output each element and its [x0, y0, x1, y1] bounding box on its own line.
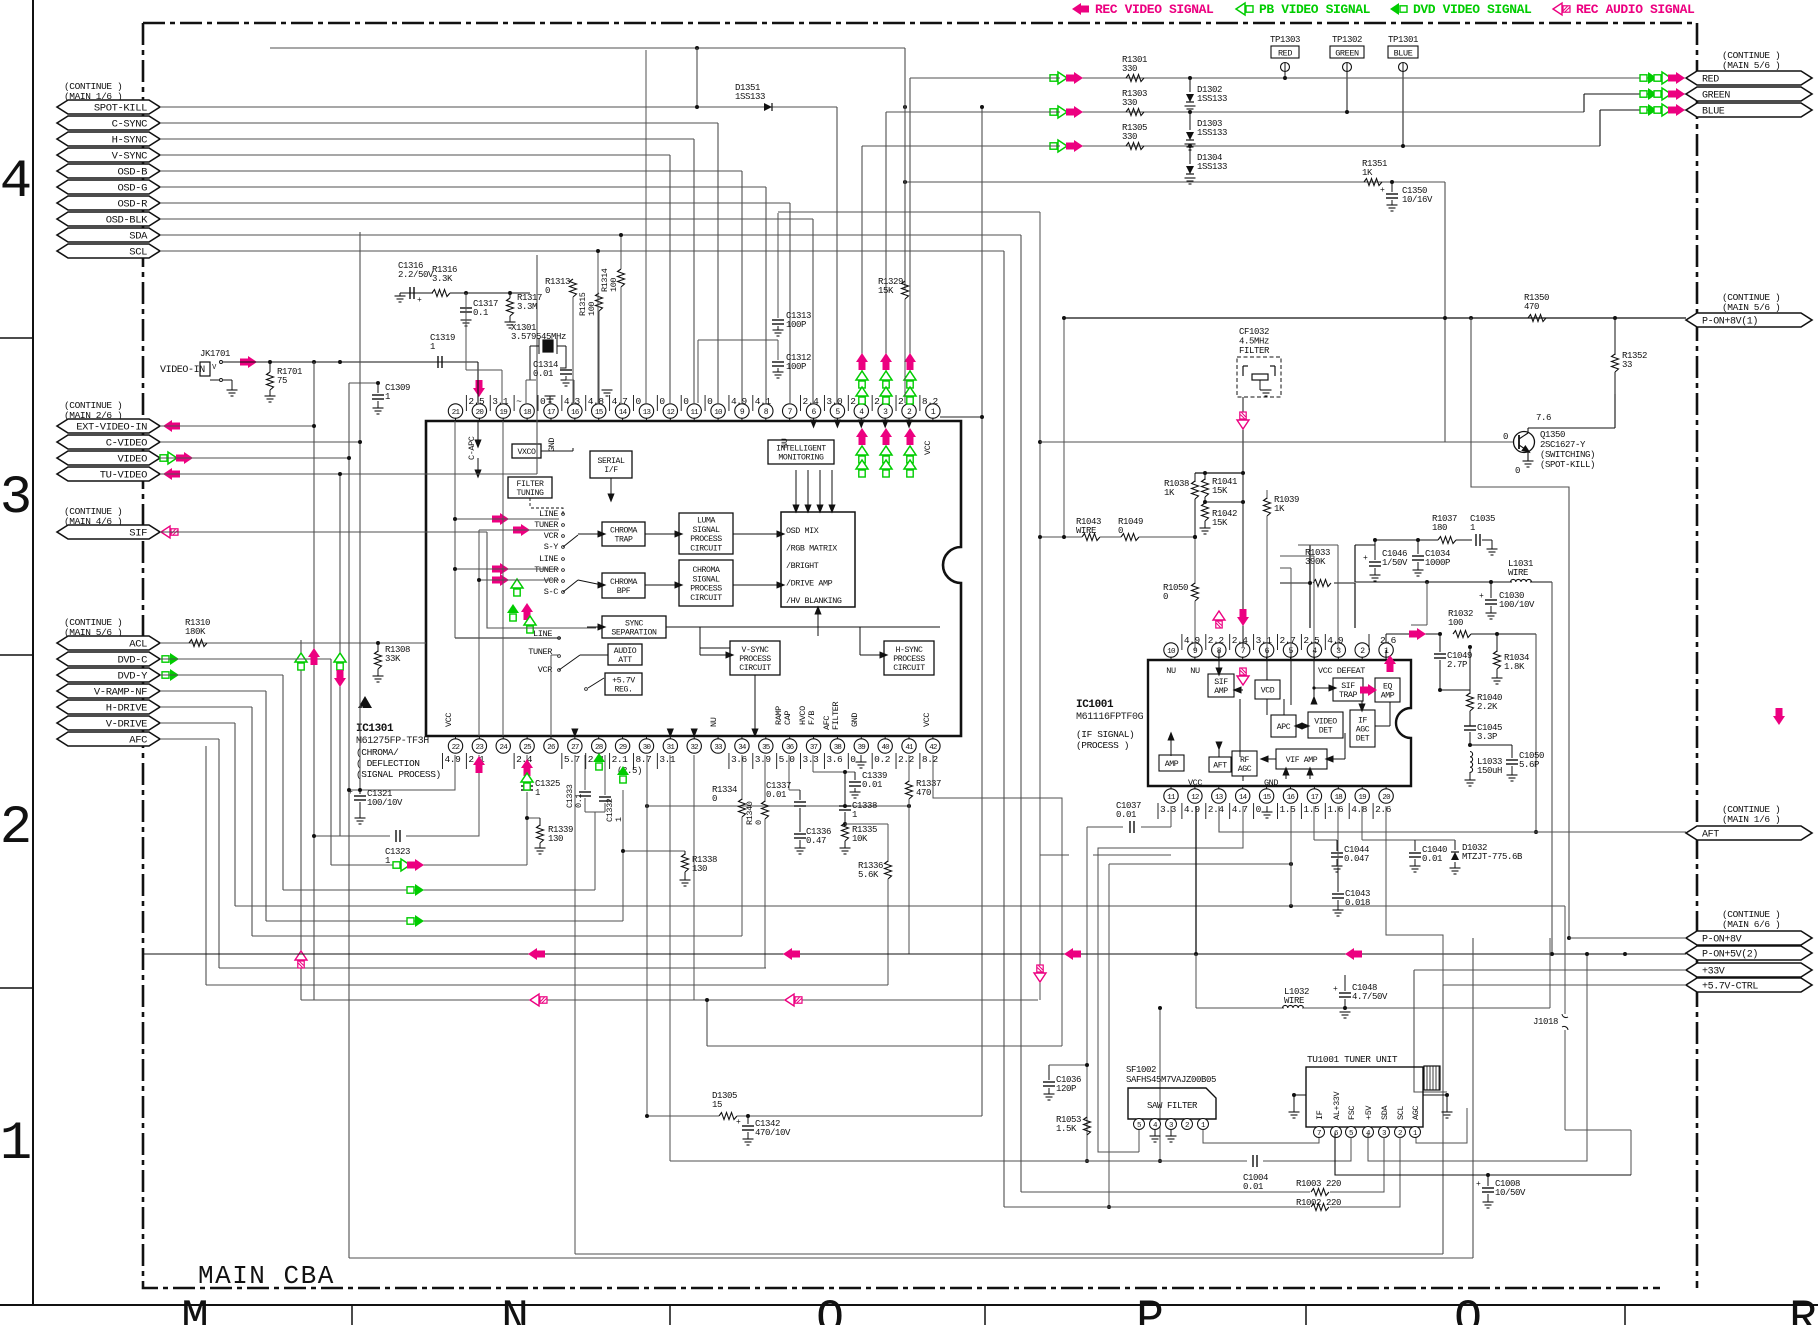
wire pin16 down: [1290, 806, 1292, 906]
svg-text:FSC: FSC: [1347, 1106, 1357, 1120]
arrow pair RED: [1050, 72, 1067, 84]
jumper J1018: [1564, 906, 1566, 1014]
svg-text:VCC: VCC: [922, 713, 932, 727]
svg-text:JK1701: JK1701: [200, 349, 230, 359]
svg-text:2.2/50V: 2.2/50V: [398, 270, 434, 280]
border frame: [32, 0, 34, 1305]
IC1301 pin 7: [789, 418, 791, 421]
wire 1064 down: [1063, 318, 1065, 537]
IC1001 pin 11: [1170, 786, 1172, 789]
svg-text:19: 19: [1358, 794, 1366, 802]
svg-text:4: 4: [0, 152, 32, 213]
svg-text:0.01: 0.01: [533, 369, 553, 379]
wire C1037 left: [1040, 854, 1069, 856]
svg-text:GND: GND: [850, 713, 860, 727]
capacitor C1036: [1048, 1065, 1050, 1080]
svg-text:37: 37: [810, 744, 818, 752]
svg-text:RED: RED: [1278, 49, 1292, 59]
IC1001 block EQ AMP: [1375, 678, 1400, 702]
svg-text:SCL: SCL: [1396, 1106, 1406, 1120]
diode D1303: [1189, 112, 1191, 130]
resistor R1042: [1202, 503, 1209, 521]
svg-text:SAW FILTER: SAW FILTER: [1147, 1101, 1198, 1111]
arrows at RED tag: [1640, 72, 1657, 84]
wire pin1 VCC right: [940, 416, 982, 418]
svg-text:(SPOT-KILL): (SPOT-KILL): [1540, 460, 1595, 470]
svg-text:C-VIDEO: C-VIDEO: [106, 438, 147, 450]
svg-text:1.8K: 1.8K: [1504, 662, 1525, 672]
connector SPOT-KILL: [57, 100, 160, 114]
wire bus 921: [266, 920, 623, 922]
connector OSD-BLK: [57, 212, 160, 226]
svg-text:REG.: REG.: [614, 686, 632, 695]
svg-text:V-SYNC: V-SYNC: [112, 151, 148, 163]
svg-text:2: 2: [0, 798, 32, 859]
svg-text:0.01: 0.01: [1422, 854, 1442, 864]
svg-text:DET: DET: [1319, 727, 1333, 736]
svg-text:SF1002: SF1002: [1126, 1065, 1156, 1075]
svg-text:(PROCESS ): (PROCESS ): [1076, 740, 1129, 751]
svg-text:REC VIDEO SIGNAL: REC VIDEO SIGNAL: [1095, 2, 1214, 17]
wire pin4 to BLUE row: [861, 146, 863, 403]
svg-text:/RGB MATRIX: /RGB MATRIX: [786, 544, 837, 554]
svg-text:8.2: 8.2: [922, 754, 939, 765]
svg-text:+5.7V-CTRL: +5.7V-CTRL: [1702, 982, 1758, 993]
svg-text:0.01: 0.01: [1116, 810, 1136, 820]
svg-text:V-RAMP-NF: V-RAMP-NF: [94, 687, 147, 699]
connector V-SYNC: [57, 148, 160, 162]
svg-text:330: 330: [1122, 98, 1137, 108]
svg-text:33: 33: [714, 744, 723, 752]
svg-text:12: 12: [667, 409, 675, 417]
svg-text:CIRCUIT: CIRCUIT: [690, 594, 722, 603]
svg-text:22: 22: [452, 744, 460, 752]
wire RED line: [1076, 77, 1686, 79]
svg-text:PROCESS: PROCESS: [893, 655, 925, 664]
capacitor C1043: [1337, 806, 1339, 868]
IC1301 block OSD MIX RGB MATRIX: [781, 512, 855, 607]
svg-text:10K: 10K: [852, 834, 868, 844]
connector DVD-Y: [57, 668, 160, 682]
resistor R1310: [189, 640, 207, 647]
svg-text:VCC: VCC: [444, 713, 454, 727]
arrow video in: [240, 356, 257, 368]
svg-text:SIGNAL: SIGNAL: [692, 575, 720, 584]
svg-text:IC1301: IC1301: [356, 723, 394, 735]
capacitor C1350: [1390, 180, 1394, 184]
svg-text:0: 0: [1515, 466, 1520, 476]
wire C-SYNC: [160, 122, 718, 124]
IC1001 internal wires: [1218, 650, 1220, 671]
svg-text:TU-VIDEO: TU-VIDEO: [100, 470, 147, 482]
svg-text:5.6P: 5.6P: [1519, 760, 1539, 770]
IC1301 reg switch: [585, 688, 588, 691]
svg-text:13: 13: [1215, 794, 1224, 802]
svg-text:15: 15: [1263, 794, 1272, 802]
wire R1038 top bus: [1195, 472, 1243, 474]
IC1001 pin 1: [1385, 657, 1387, 660]
svg-text:M61275FP-TF3H: M61275FP-TF3H: [356, 736, 429, 747]
op-amp IC1301 body: [426, 421, 961, 736]
diode D1351: [764, 103, 772, 111]
svg-text:14: 14: [619, 409, 628, 417]
resistor R1340: [764, 755, 766, 802]
IC1301 pin 13: [645, 418, 647, 421]
IC1001 pin 4: [1313, 657, 1315, 660]
svg-text:H-SYNC: H-SYNC: [895, 646, 923, 655]
capacitor C1309: [377, 383, 379, 393]
svg-text:AUDIO: AUDIO: [614, 647, 637, 656]
capacitor C1342: [747, 1116, 749, 1124]
resistor R1339: [527, 817, 540, 819]
connector +33V: [1686, 963, 1812, 977]
IC1301 pin 4: [860, 418, 862, 421]
svg-text:MONITORING: MONITORING: [778, 454, 824, 463]
wire pin4 up: [1313, 556, 1315, 650]
svg-text:1.5: 1.5: [1280, 804, 1297, 815]
svg-text:+: +: [1363, 554, 1368, 563]
svg-text:12: 12: [1191, 794, 1199, 802]
IC1001 block RF AGC: [1232, 751, 1257, 776]
svg-text:S-C: S-C: [544, 587, 559, 597]
wire spotkill drop 905: [904, 48, 906, 290]
svg-text:I/F: I/F: [604, 465, 618, 475]
resistor R1034: [1496, 634, 1498, 652]
svg-text:0.2: 0.2: [874, 754, 891, 765]
svg-text:10: 10: [1167, 648, 1176, 656]
svg-text:34: 34: [738, 744, 747, 752]
capacitor C1048: [1343, 1006, 1347, 1010]
svg-text:VCD: VCD: [1261, 687, 1275, 696]
SF1002 pin 4: [1150, 1119, 1161, 1130]
resistor R1334: [741, 755, 743, 800]
svg-text:1/50V: 1/50V: [1382, 558, 1408, 568]
svg-text:0.047: 0.047: [1344, 854, 1369, 864]
wire AFC: [160, 738, 219, 740]
resistor R1038: [1194, 473, 1196, 482]
svg-text:330: 330: [1122, 132, 1137, 142]
resistor R1351: [905, 181, 1445, 183]
wire SAW pin5: [1138, 1130, 1140, 1152]
svg-text:1.5: 1.5: [1303, 804, 1320, 815]
gnd pin39: [860, 755, 862, 762]
wire pin11 left: [1170, 854, 1172, 856]
IC1301 pin 23: [478, 736, 480, 739]
wire V-RAMP-NF: [160, 690, 266, 692]
capacitor C1333: [584, 755, 586, 790]
svg-text:AGC: AGC: [1411, 1106, 1421, 1120]
svg-text:470/10V: 470/10V: [755, 1128, 791, 1138]
IC1301 pin 29: [622, 736, 624, 739]
svg-text:NU: NU: [1190, 666, 1200, 676]
wire V-DRIVE: [160, 722, 235, 724]
svg-text:( DEFLECTION: ( DEFLECTION: [356, 758, 420, 769]
IC1001 block VCD: [1255, 680, 1280, 699]
wire R1043 left: [1039, 212, 1041, 1000]
svg-text:(SIGNAL PROCESS): (SIGNAL PROCESS): [356, 769, 441, 780]
svg-text:4.9: 4.9: [445, 754, 462, 765]
svg-text:GREEN: GREEN: [1702, 91, 1730, 102]
svg-text:+: +: [1479, 592, 1484, 601]
wire OSD-G: [160, 186, 766, 188]
gnd near pin15 top: [602, 389, 613, 391]
wire bus 985: [206, 984, 888, 986]
wire SDA: [160, 234, 1021, 236]
svg-text:VCC DEFEAT: VCC DEFEAT: [1318, 666, 1365, 676]
IC1301 pin 15: [598, 418, 600, 421]
svg-text:SPOT-KILL: SPOT-KILL: [94, 103, 147, 115]
svg-text:2.2: 2.2: [1208, 635, 1225, 646]
IC1301 block SYNC SEPARATION: [602, 616, 666, 638]
svg-text:0.1: 0.1: [473, 308, 488, 318]
IC1001 pin 10: [1170, 657, 1172, 660]
svg-text:TUNER: TUNER: [528, 647, 552, 657]
wire bus 968: [219, 967, 766, 969]
svg-text:LINE: LINE: [539, 554, 558, 564]
IC1301 pin 28: [598, 736, 600, 739]
IC1301 block FILTER TUNING: [508, 477, 552, 498]
IC1301 pin 31: [669, 736, 671, 739]
wire VIDEO: [160, 452, 177, 464]
svg-text:TP1302: TP1302: [1332, 35, 1362, 45]
svg-text:0.018: 0.018: [1345, 898, 1370, 908]
svg-text:3.3M: 3.3M: [517, 302, 537, 312]
resistor R1308: [377, 643, 379, 652]
svg-text:F/B: F/B: [807, 711, 817, 725]
svg-text:IC1001: IC1001: [1076, 699, 1114, 711]
connector GREEN: [1686, 87, 1812, 101]
svg-text:H-DRIVE: H-DRIVE: [106, 703, 147, 715]
arrow pin23: [473, 756, 485, 773]
wire bus 1046: [707, 1045, 1062, 1047]
wire pin20 up: [477, 362, 479, 403]
wire +33V: [1414, 969, 1686, 971]
svg-text:1: 1: [852, 810, 857, 820]
svg-text:V-SYNC: V-SYNC: [741, 646, 769, 655]
arrow pin28: [593, 753, 605, 770]
resistor R1352: [1614, 318, 1616, 355]
svg-text:(CHROMA/: (CHROMA/: [356, 747, 399, 758]
svg-text:(MAIN 1/6 ): (MAIN 1/6 ): [1722, 814, 1780, 825]
wire pin5 up: [1290, 568, 1292, 650]
arrow stacks inside IC1301 top: [856, 428, 868, 445]
IC1301 reference label: [358, 696, 372, 708]
wire pin3 up: [1337, 545, 1339, 650]
IC1301 pin 16: [574, 418, 576, 421]
svg-text:DVD-Y: DVD-Y: [117, 671, 148, 683]
wire tuner +5V to P-ON+5V: [1368, 954, 1587, 1161]
wire +5.7V-CTRL vert: [1443, 984, 1686, 986]
IC1301 pin 10: [717, 418, 719, 421]
IC1301 block LUMA SIGNAL PROCESS CIRCUIT: [679, 513, 733, 554]
svg-text:OSD-G: OSD-G: [117, 183, 147, 195]
SF1002 pin 1: [1198, 1119, 1209, 1130]
IC1301 block CHROMA TRAP: [602, 522, 645, 546]
wire DVD-Y: [162, 669, 179, 681]
svg-text:TUNING: TUNING: [516, 489, 544, 498]
svg-text:31: 31: [667, 744, 676, 752]
svg-text:26: 26: [547, 744, 556, 752]
svg-text:2.4: 2.4: [803, 396, 820, 407]
wire pin16 up: [573, 380, 575, 403]
svg-text:CHROMA: CHROMA: [692, 566, 720, 575]
svg-text:5.0: 5.0: [779, 754, 796, 765]
wire bus 906: [235, 905, 1565, 907]
svg-text:18: 18: [1335, 794, 1343, 802]
svg-text:0.01: 0.01: [862, 780, 882, 790]
capacitor C1049: [1439, 634, 1441, 652]
svg-text:TRAP: TRAP: [1339, 691, 1358, 700]
IC1301 pin 30: [645, 736, 647, 739]
connector VIDEO: [57, 451, 160, 465]
capacitor C1040: [1361, 806, 1363, 840]
svg-text:VCR: VCR: [538, 665, 553, 675]
IC1301 pin 14: [622, 418, 624, 421]
wire bus 1000: [301, 999, 1038, 1001]
IC1001 block IF AGC DET: [1350, 710, 1375, 747]
IC1001 pin 13: [1218, 786, 1220, 789]
svg-text:Q: Q: [1454, 1293, 1482, 1325]
svg-text:TP1301: TP1301: [1388, 35, 1418, 45]
svg-text:AGC: AGC: [1356, 726, 1370, 735]
IC1001 block SIF AMP: [1208, 674, 1234, 697]
svg-text:100P: 100P: [786, 320, 806, 330]
svg-text:33K: 33K: [385, 654, 401, 664]
IC1301 pin 20: [478, 418, 480, 421]
IC1001 pin 16: [1290, 786, 1292, 789]
wire GREEN branch: [1076, 111, 1584, 113]
svg-text:25: 25: [523, 744, 532, 752]
arrow pin29: [617, 766, 629, 783]
connector P-ON+5V(2): [1686, 946, 1812, 960]
svg-text:3.6: 3.6: [731, 754, 748, 765]
svg-text:OSD-BLK: OSD-BLK: [106, 215, 148, 227]
IC1301 pin 9: [741, 418, 743, 421]
IC1001 pin 2: [1361, 657, 1363, 660]
IC1001 pin 20: [1385, 786, 1387, 789]
wire pin17 gnd: [549, 396, 551, 403]
svg-text:O: O: [816, 1293, 844, 1325]
svg-text:3.3: 3.3: [803, 754, 820, 765]
resistor R1337: [908, 755, 910, 782]
svg-text:VCC: VCC: [1188, 778, 1202, 788]
tuner side stubs: [1294, 1095, 1306, 1112]
svg-text:TP1303: TP1303: [1270, 35, 1300, 45]
svg-text:DET: DET: [1356, 735, 1370, 744]
svg-text:VCR: VCR: [544, 531, 559, 541]
svg-text:RED: RED: [1702, 75, 1719, 86]
svg-text:0.01: 0.01: [766, 790, 786, 800]
svg-text:NU: NU: [1166, 666, 1176, 676]
diode D1302: [1189, 78, 1191, 92]
svg-text:4.5MHz: 4.5MHz: [1239, 337, 1269, 347]
wire AFT net: [1219, 806, 1686, 832]
wire spotkill drop 980: [981, 107, 983, 1116]
svg-text:SAFHS45M7VAJZ00B05: SAFHS45M7VAJZ00B05: [1126, 1075, 1216, 1085]
IC1001 pin 6: [1266, 657, 1268, 660]
capacitor C1321: [349, 755, 455, 790]
svg-text:AMP: AMP: [1214, 687, 1228, 696]
IC1301 block AUDIO ATT: [608, 644, 642, 665]
arrow pin8 top: [1213, 611, 1225, 628]
IC1001 pin 12: [1194, 786, 1196, 789]
svg-text:TUNER: TUNER: [534, 565, 558, 575]
svg-text:27: 27: [571, 744, 579, 752]
svg-text:2.6: 2.6: [1380, 635, 1397, 646]
svg-text:OSD-B: OSD-B: [117, 167, 147, 179]
svg-text:(MAIN 5/6 ): (MAIN 5/6 ): [1722, 302, 1780, 313]
svg-text:SIGNAL: SIGNAL: [692, 526, 720, 535]
svg-text:15K: 15K: [878, 286, 894, 296]
svg-text:150uH: 150uH: [1477, 766, 1502, 776]
svg-text:2.2K: 2.2K: [1477, 702, 1498, 712]
resistor R1701: [269, 362, 271, 372]
svg-text:4.9: 4.9: [1184, 804, 1201, 815]
svg-text:0: 0: [545, 286, 550, 296]
svg-text:3.0: 3.0: [826, 396, 843, 407]
IC1301 pin 38: [836, 736, 838, 739]
wire SCL: [160, 250, 1004, 252]
connector V-DRIVE: [57, 716, 160, 730]
svg-text:3.1: 3.1: [1256, 635, 1273, 646]
wire H-SYNC: [160, 138, 694, 140]
wire pin18 up: [525, 380, 527, 403]
resistor R1041: [1204, 473, 1206, 480]
IC1301 pin 39: [860, 736, 862, 739]
svg-text:1K: 1K: [1362, 168, 1373, 178]
resistor R1336: [845, 823, 888, 825]
arrow hatch near CF: [1237, 412, 1249, 429]
svg-text:3.9: 3.9: [755, 754, 772, 765]
svg-text:18: 18: [523, 409, 531, 417]
capacitor C1313: [777, 213, 779, 318]
svg-text:RF: RF: [1240, 756, 1250, 765]
gnd pin15: [1266, 806, 1268, 812]
svg-text:0: 0: [659, 396, 665, 407]
wire pin12 down: [1195, 806, 1197, 954]
svg-text:(MAIN 6/6 ): (MAIN 6/6 ): [1722, 919, 1780, 930]
legend REC AUDIO SIGNAL: [1553, 3, 1570, 15]
svg-text:FILTER: FILTER: [831, 701, 841, 730]
svg-text:WIRE: WIRE: [1076, 526, 1096, 536]
svg-text:(IF SIGNAL): (IF SIGNAL): [1076, 729, 1134, 740]
connector TU-VIDEO: [57, 467, 160, 481]
svg-text:VIF AMP: VIF AMP: [1286, 756, 1318, 765]
svg-text:BLUE: BLUE: [1702, 107, 1725, 118]
IC1001 pin 18: [1337, 786, 1339, 789]
svg-text:+5V: +5V: [1364, 1105, 1374, 1120]
svg-text:2: 2: [1398, 1130, 1402, 1138]
IC1001 pin 5: [1290, 657, 1292, 660]
capacitor C1337: [788, 755, 790, 790]
resistor R1301: [1126, 75, 1144, 82]
svg-text:V-DRIVE: V-DRIVE: [106, 719, 147, 731]
capacitor C1044: [1313, 806, 1315, 840]
svg-text:3.3K: 3.3K: [432, 274, 453, 284]
svg-text:IF: IF: [1358, 716, 1368, 725]
IC1301 top pin input arrows: [905, 420, 912, 429]
svg-text:H-SYNC: H-SYNC: [112, 135, 148, 147]
connector V-RAMP-NF: [57, 684, 160, 698]
capacitor C1046: [1374, 550, 1376, 560]
connector SIF: [57, 525, 160, 539]
svg-text:J1018: J1018: [1533, 1017, 1558, 1027]
svg-text:8.2: 8.2: [922, 396, 939, 407]
connector SCL: [57, 244, 160, 258]
svg-text:1SS133: 1SS133: [1197, 162, 1227, 172]
resistor R1314: [618, 269, 625, 287]
svg-text:7: 7: [1317, 1130, 1321, 1138]
